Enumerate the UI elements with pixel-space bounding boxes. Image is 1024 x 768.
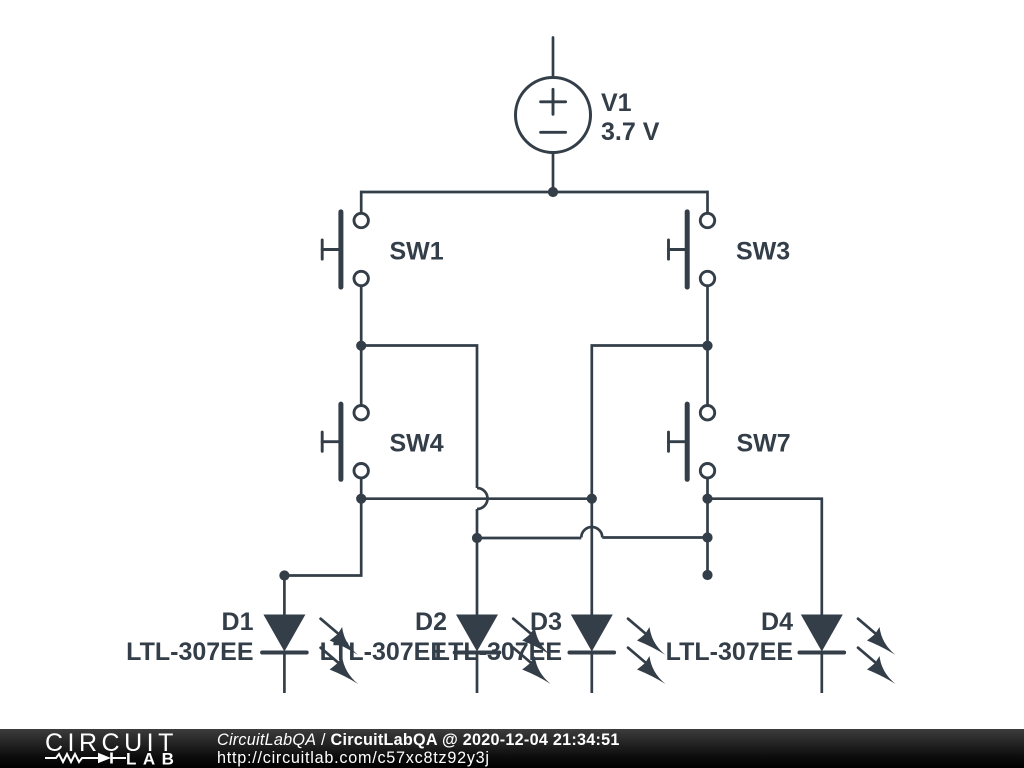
- node E junction: [587, 494, 597, 504]
- switch SW7: [669, 404, 715, 479]
- wire node B to SW7: [706, 346, 709, 407]
- svg-text:LTL-307EE: LTL-307EE: [435, 638, 562, 666]
- wire SW3 to node B: [706, 286, 709, 346]
- logo resistor-diode glyph: [45, 753, 126, 764]
- voltage source V1: [516, 78, 591, 153]
- switch SW1: [322, 212, 368, 287]
- svg-text:D1: D1: [222, 608, 254, 636]
- node endpoint dot: [702, 570, 712, 580]
- node F junction: [702, 532, 712, 542]
- wire rail to SW1: [360, 191, 363, 214]
- node junction below V1: [548, 187, 558, 197]
- wire hop over x=592 wire: [581, 527, 602, 538]
- wire SW1 to node A: [360, 286, 363, 346]
- svg-text:http://circuitlab.com/c57xc8tz: http://circuitlab.com/c57xc8tz92y3j: [217, 749, 490, 767]
- wire top rail: [361, 191, 707, 194]
- wire node A to SW4: [360, 346, 363, 407]
- wire node F to node G left part: [602, 536, 707, 539]
- node C junction: [356, 494, 366, 504]
- node D junction: [702, 494, 712, 504]
- wire node A to D2 branch: [361, 346, 477, 489]
- wire hop over y=498 rail: [477, 488, 488, 509]
- svg-text:D3: D3: [530, 608, 562, 636]
- node B junction: [702, 341, 712, 351]
- node A junction: [356, 341, 366, 351]
- svg-text:SW7: SW7: [737, 430, 791, 458]
- svg-text:CircuitLabQA / CircuitLabQA @: CircuitLabQA / CircuitLabQA @ 2020-12-04…: [217, 731, 620, 749]
- switch SW4: [322, 404, 368, 479]
- wire node C down to D1 corner: [284, 499, 361, 576]
- wire V1 bottom lead: [552, 153, 555, 193]
- svg-text:LTL-307EE: LTL-307EE: [126, 638, 253, 666]
- LED D4: [800, 615, 896, 694]
- svg-text:LTL-307EE: LTL-307EE: [666, 638, 793, 666]
- wire SW7 to node D: [706, 478, 709, 499]
- svg-text:V1: V1: [601, 89, 632, 117]
- wire V1 top lead: [552, 38, 555, 78]
- wire node C to node E: [361, 497, 592, 500]
- svg-text:SW3: SW3: [736, 238, 790, 266]
- footer bar: [0, 729, 1024, 768]
- wire node D to node F: [706, 499, 709, 538]
- svg-text:LAB: LAB: [126, 750, 180, 768]
- LED D1: [262, 615, 358, 694]
- svg-text:LTL-307EE: LTL-307EE: [320, 638, 447, 666]
- wire hop to D2: [476, 509, 479, 615]
- svg-text:SW1: SW1: [390, 238, 444, 266]
- switch SW3: [669, 212, 715, 287]
- svg-text:SW4: SW4: [390, 430, 444, 458]
- wire corner to D1: [283, 576, 286, 616]
- wire SW4 to node C: [360, 478, 363, 499]
- wire node D to D4: [708, 499, 822, 615]
- LED D3: [570, 615, 666, 694]
- wire rail to SW3: [706, 191, 709, 214]
- LED D2: [455, 615, 551, 694]
- wire node F stub down: [706, 538, 709, 576]
- svg-text:D4: D4: [761, 608, 793, 636]
- node corner dot above D1: [279, 570, 289, 580]
- svg-text:3.7 V: 3.7 V: [601, 118, 660, 146]
- node G junction: [472, 533, 482, 543]
- wire node B to D3: [592, 346, 708, 616]
- wire hop to node G: [477, 537, 581, 540]
- svg-text:D2: D2: [415, 608, 447, 636]
